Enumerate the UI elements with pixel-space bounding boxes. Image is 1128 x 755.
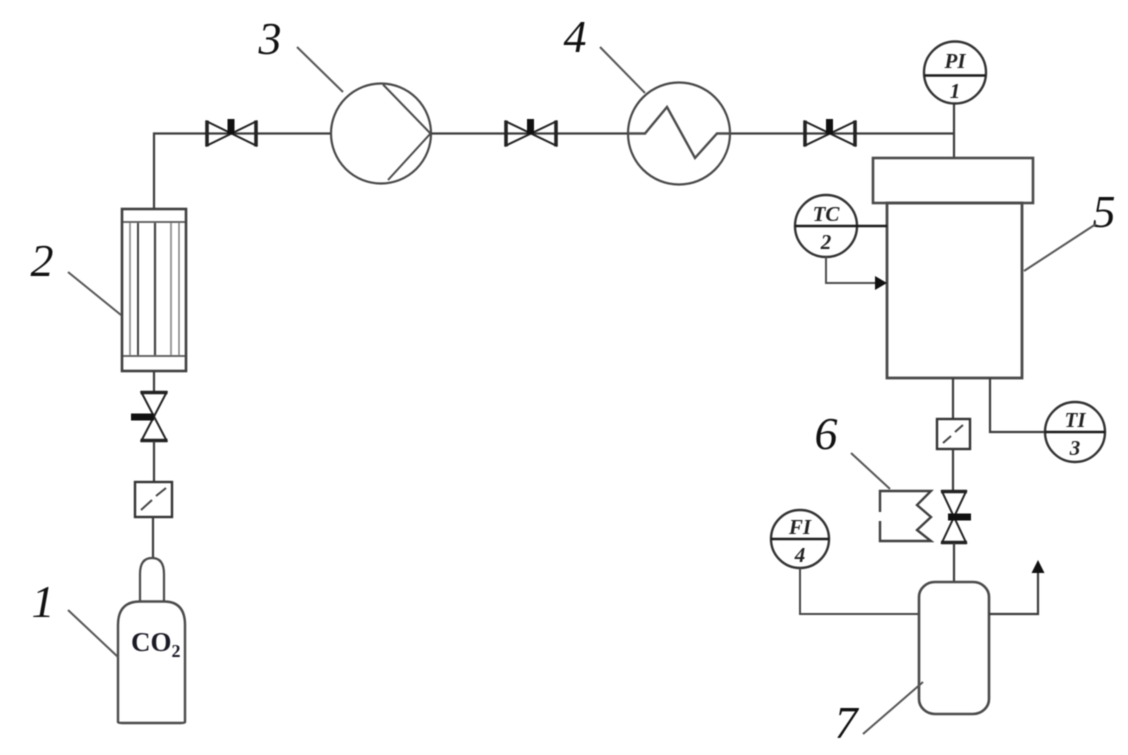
CO2 cylinder 1	[118, 558, 185, 723]
svg-text:3: 3	[1069, 436, 1081, 460]
gauge FI 4	[771, 510, 829, 568]
wire: top main pipe from column 2 to pump	[154, 134, 331, 210]
label 4	[564, 11, 646, 93]
label 6	[815, 408, 891, 489]
wire: separator vent with arrow up	[989, 560, 1045, 614]
svg-text:TI: TI	[1065, 408, 1087, 432]
label 5	[1024, 186, 1116, 271]
wire: TC2 control line into vessel with arrow	[826, 257, 887, 290]
svg-text:PI: PI	[944, 49, 967, 73]
svg-text:1: 1	[950, 79, 961, 103]
svg-text:5: 5	[1093, 186, 1116, 237]
valve V5 (vertical, below column)	[131, 393, 168, 441]
label 2	[31, 235, 122, 315]
gauge TC 2	[795, 195, 887, 257]
vessel 5 body	[887, 203, 1022, 378]
column 2 (CO2 conditioning column)	[122, 209, 186, 371]
pump 3 (circle with chords)	[331, 84, 431, 184]
wire: pipe pump to heat exchanger	[431, 132, 628, 134]
wire: vertical pipe from gauge PI1 down to vessel lid	[953, 103, 955, 159]
label 3	[258, 13, 344, 92]
valve V4 (vertical, back-pressure)	[941, 492, 971, 543]
wire: vessel bottom outlet to filter F2	[952, 378, 954, 419]
svg-text:1: 1	[32, 576, 55, 627]
label 1	[32, 576, 119, 657]
valve V2 (horizontal, right of pump)	[506, 119, 556, 147]
svg-text:4: 4	[794, 543, 806, 567]
svg-text:TC: TC	[813, 202, 841, 226]
svg-text:3: 3	[258, 13, 282, 64]
wire: pipe heat exchanger to vessel junction	[730, 132, 955, 134]
svg-text:CO2: CO2	[131, 627, 181, 661]
wire: FI4 line to separator	[800, 568, 919, 614]
filter F1 (square with diagonal)	[135, 482, 172, 517]
filter F2 (square with diagonal)	[937, 419, 970, 449]
label 7	[835, 682, 924, 748]
valve V1 (horizontal, left of pump)	[207, 119, 256, 147]
wire: pipe filter F1 to cylinder	[152, 517, 154, 559]
vessel 5 lid	[873, 158, 1033, 203]
svg-text:FI: FI	[788, 515, 812, 539]
wire: pipe valve V4 to separator 7	[953, 543, 955, 582]
svg-text:2: 2	[820, 230, 832, 254]
gauge TI 3	[1045, 402, 1105, 462]
svg-text:2: 2	[31, 235, 54, 286]
svg-text:7: 7	[835, 697, 860, 748]
wire: pipe column to valve V5	[153, 371, 155, 392]
svg-text:6: 6	[815, 408, 838, 459]
separator 7 (capsule vessel)	[919, 582, 989, 714]
heater 6 (box with zigzag edge)	[880, 491, 931, 541]
svg-text:4: 4	[564, 11, 587, 62]
wire: pipe filter F2 to valve V4	[952, 449, 954, 491]
valve V3 (horizontal, right of heat exchanger)	[805, 119, 855, 147]
heat exchanger 4 (circle with zigzag)	[628, 83, 730, 185]
gauge PI 1	[924, 42, 986, 104]
wire: pipe valve V5 to filter F1	[153, 441, 155, 482]
wire: vessel side outlet to gauge TI3	[990, 378, 1045, 432]
